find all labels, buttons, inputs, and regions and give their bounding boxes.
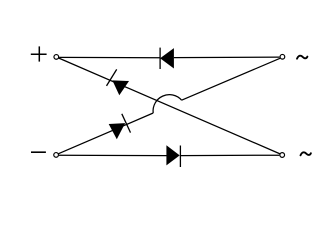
minus label (− of DC output)	[31, 151, 46, 153]
AC label bottom (~)	[301, 152, 311, 155]
plus label (+ of DC output)	[31, 46, 47, 61]
wire: diagonal lower-left segment (− terminal to hop, through D4)	[59, 113, 154, 154]
AC label top (~)	[297, 56, 307, 59]
wire: bottom horizontal left segment (− terminal to D2 anode)	[59, 154, 167, 156]
node: ~ terminal circle (bottom-right)	[280, 153, 285, 158]
diode D2 (bottom, pointing right)	[166, 145, 180, 167]
wire: top horizontal left segment (+ terminal to D1 cathode)	[59, 56, 160, 58]
wire: diagonal from + terminal to bottom ~ terminal (through D3)	[59, 58, 281, 154]
node: − terminal circle (bottom-left)	[54, 153, 59, 158]
wire: top horizontal right segment (D1 anode to top ~ terminal)	[174, 56, 280, 59]
wire: diagonal upper-right segment (hop to top ~ terminal)	[182, 58, 280, 100]
node: + terminal circle (top-left)	[54, 55, 59, 60]
node: ~ terminal circle (top-right)	[280, 54, 285, 59]
diode D4 (lower diagonal)	[109, 114, 131, 139]
wire: bottom horizontal right segment (D2 cathode to bottom ~ terminal)	[180, 154, 279, 156]
diode D1 (top, pointing left)	[160, 48, 174, 69]
wire hop (crossover arc, no junction)	[153, 95, 182, 113]
diode D3 (upper diagonal)	[107, 69, 130, 95]
